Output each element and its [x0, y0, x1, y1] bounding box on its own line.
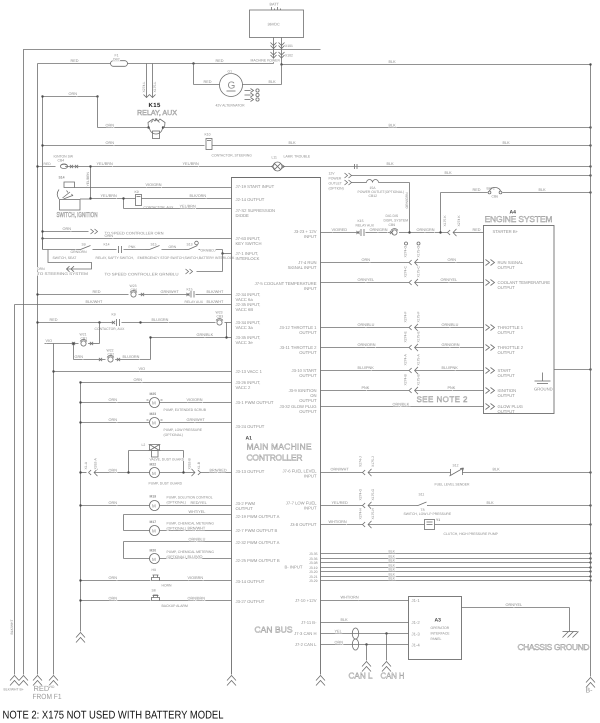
sheet border	[24, 50, 321, 675]
valve L2 dust guard	[129, 450, 150, 452]
wire VIO/GRN row	[75, 187, 232, 189]
svg-text:X274-B: X274-B	[404, 373, 408, 385]
svg-text:X1-A: X1-A	[84, 461, 88, 469]
svg-text:BLK/WHT: BLK/WHT	[86, 300, 104, 304]
svg-text:ORN/YEL: ORN/YEL	[441, 278, 458, 282]
svg-text:X175-L: X175-L	[153, 81, 157, 92]
svg-text:VIO/BRN: VIO/BRN	[188, 576, 204, 580]
svg-text:TO STEERING SYSTEM: TO STEERING SYSTEM	[37, 272, 88, 276]
svg-text:J3-29: J3-29	[309, 579, 318, 583]
wire ORN/GRN to A4	[399, 232, 448, 234]
svg-text:BLK: BLK	[503, 141, 511, 145]
wire to speed controller GRN/BLU	[222, 254, 224, 272]
wire ORN/WHT fuel level row	[321, 472, 363, 474]
wire GRN/BLK to A1 J3-34	[225, 322, 232, 324]
wire ORN CAN L	[321, 644, 409, 646]
svg-text:LAMP, TROUBLE: LAMP, TROUBLE	[284, 155, 311, 159]
svg-text:ORN/BLU: ORN/BLU	[442, 323, 459, 327]
wire BLK lamp row to right rail	[282, 166, 591, 168]
svg-text:BLK: BLK	[341, 618, 349, 622]
svg-text:RELAY AUX: RELAY AUX	[185, 300, 204, 304]
svg-text:J3-20: J3-20	[309, 570, 318, 574]
svg-text:ORN: ORN	[109, 418, 118, 422]
svg-text:X175-A: X175-A	[417, 353, 421, 365]
breaker W21 CB1	[45, 343, 79, 345]
svg-text:OUTPUT: OUTPUT	[299, 373, 317, 378]
svg-text:SWITCH, LOW LP PRESSURE: SWITCH, LOW LP PRESSURE	[404, 512, 452, 516]
svg-text:RED: RED	[44, 162, 52, 166]
wire RED row K9	[38, 322, 115, 324]
svg-text:BLK: BLK	[387, 162, 395, 166]
svg-text:J3-08: J3-08	[309, 561, 318, 565]
svg-text:X274 K: X274 K	[457, 215, 461, 227]
svg-text:K14: K14	[104, 243, 110, 247]
svg-text:M: M	[152, 504, 156, 509]
chassis ground symbol	[563, 631, 578, 633]
svg-text:VACC 2: VACC 2	[236, 385, 251, 390]
svg-text:J7-3 CAN H: J7-3 CAN H	[294, 631, 316, 636]
svg-text:J3-14 OUTPUT: J3-14 OUTPUT	[236, 579, 265, 584]
svg-text:12V: 12V	[329, 172, 336, 176]
svg-text:X262-B: X262-B	[188, 457, 192, 469]
svg-text:OUTPUT: OUTPUT	[299, 350, 317, 355]
wire VIO/RED +12V row	[321, 232, 357, 234]
wire YEL/BRN row lower	[123, 199, 125, 209]
pump M20 chemical metering	[124, 541, 232, 543]
wire VIO rail	[53, 344, 55, 675]
svg-text:SWITCH, SEAT: SWITCH, SEAT	[53, 256, 77, 260]
svg-text:KEY SWITCH: KEY SWITCH	[236, 241, 262, 246]
svg-text:M: M	[152, 471, 156, 476]
wire B- input stack	[321, 553, 591, 555]
wire RED rail from F1	[37, 64, 39, 675]
svg-text:J2-13 VACC 1: J2-13 VACC 1	[236, 369, 263, 374]
svg-text:VIO: VIO	[139, 367, 146, 371]
wire outlet fused feed riser	[379, 182, 410, 184]
svg-text:GRN/BLK: GRN/BLK	[197, 333, 214, 337]
wire BLK to rail	[429, 505, 591, 507]
connector X175-K X274-K	[448, 230, 451, 235]
svg-text:BLU/VIO: BLU/VIO	[188, 555, 203, 559]
svg-text:BLK: BLK	[493, 468, 501, 472]
wire BLK/WHT row	[15, 304, 232, 306]
horn H9	[81, 580, 151, 582]
wire PNK row	[321, 390, 410, 392]
svg-text:DIODE: DIODE	[236, 213, 249, 218]
wire B- right rail	[590, 65, 592, 677]
svg-text:M22: M22	[150, 463, 157, 467]
connector X274-G X175-G	[363, 503, 366, 508]
svg-text:(OPTION): (OPTION)	[329, 187, 344, 191]
wire alternator BLK output	[243, 84, 282, 86]
svg-text:CB4: CB4	[58, 159, 65, 163]
svg-text:FUEL LEVEL SENDER: FUEL LEVEL SENDER	[435, 483, 471, 487]
svg-text:FROM F1: FROM F1	[33, 692, 62, 701]
svg-text:GRN: GRN	[75, 355, 84, 359]
wire ORN/BLU row	[321, 327, 410, 329]
wire X274-L riser	[146, 64, 148, 98]
svg-text:J1-2: J1-2	[412, 620, 421, 625]
svg-text:ORN: ORN	[448, 258, 457, 262]
svg-text:YEL/RED: YEL/RED	[332, 501, 349, 505]
svg-text:CONTROLLER: CONTROLLER	[247, 453, 303, 463]
svg-text:BATT: BATT	[270, 3, 280, 7]
svg-text:YEL/BRN: YEL/BRN	[86, 171, 90, 186]
svg-text:BLK: BLK	[389, 124, 397, 128]
svg-text:DB2: DB2	[113, 57, 120, 61]
wire ORN/GRN	[369, 232, 391, 234]
svg-text:J3-1 PWM OUTPUT: J3-1 PWM OUTPUT	[236, 400, 274, 405]
svg-text:CHASSIS GROUND: CHASSIS GROUND	[518, 642, 590, 652]
pump M17 chemical metering	[124, 514, 232, 516]
svg-text:SEE NOTE 2: SEE NOTE 2	[417, 395, 469, 404]
svg-text:BLK/WHT: BLK/WHT	[10, 619, 14, 634]
svg-text:OUTPUT: OUTPUT	[498, 285, 516, 290]
battery BATT 36VDC	[250, 10, 304, 38]
svg-text:K10: K10	[205, 133, 211, 137]
svg-text:X274-F: X274-F	[404, 311, 408, 322]
svg-text:BLK: BLK	[389, 60, 397, 64]
svg-text:BLK: BLK	[389, 577, 396, 581]
svg-text:PNK: PNK	[129, 245, 137, 249]
svg-text:ORN: ORN	[69, 92, 78, 96]
svg-text:CONTACTOR, STEERING: CONTACTOR, STEERING	[212, 154, 253, 158]
svg-text:MACHINE POWER: MACHINE POWER	[251, 59, 281, 63]
svg-text:ORN/BLU: ORN/BLU	[201, 248, 217, 252]
wire A4 ground to rail	[554, 369, 591, 371]
pump M23	[81, 422, 150, 424]
wire BLK relay to right rail	[163, 127, 591, 129]
svg-text:M: M	[152, 529, 156, 534]
wire GRN/WHT	[139, 294, 187, 296]
wire GRN row	[74, 359, 106, 361]
wire ORN relay coil row	[98, 127, 149, 129]
svg-text:X175-J: X175-J	[371, 456, 375, 467]
wire ORN row to A1 J3-26	[81, 382, 232, 384]
svg-text:S15: S15	[151, 243, 157, 247]
svg-text:S13: S13	[187, 243, 193, 247]
svg-text:RED: RED	[50, 318, 58, 322]
svg-text:INPUT: INPUT	[304, 506, 317, 511]
wire ORN to speed controller	[43, 231, 89, 233]
fuse F1 DB2	[111, 61, 128, 67]
svg-text:INPUT: INPUT	[304, 474, 317, 479]
svg-text:X175-G: X175-G	[371, 488, 375, 500]
svg-text:J1-4: J1-4	[412, 643, 421, 648]
controller A1 main machine	[232, 178, 321, 675]
svg-text:BLK: BLK	[389, 559, 396, 563]
svg-text:K15: K15	[187, 288, 193, 292]
svg-text:ORN/WHT: ORN/WHT	[331, 468, 350, 472]
svg-text:INTERFACE: INTERFACE	[431, 632, 451, 636]
svg-text:H9: H9	[152, 568, 156, 572]
svg-text:B-: B-	[586, 688, 594, 695]
connector X274-C / X175-C	[409, 280, 412, 285]
svg-text:PUMP, EXTENDED SCRUB: PUMP, EXTENDED SCRUB	[164, 408, 207, 412]
svg-text:ORN: ORN	[109, 469, 118, 473]
svg-text:CAN L: CAN L	[349, 671, 373, 681]
wire ORN/YEL to chassis ground	[462, 607, 570, 609]
svg-text:S9: S9	[82, 243, 86, 247]
wire BLK/WHT to A1 J2-34	[199, 294, 232, 296]
svg-text:ORN: ORN	[109, 576, 118, 580]
svg-text:J2-25 PWM OUTPUT B: J2-25 PWM OUTPUT B	[236, 558, 280, 563]
svg-text:OUTPUT: OUTPUT	[299, 398, 317, 403]
svg-text:J3-35: J3-35	[309, 552, 318, 556]
wire GRN/BLK row W22 riser	[151, 337, 227, 339]
svg-text:PANEL: PANEL	[431, 637, 442, 641]
svg-text:INPUT: INPUT	[304, 286, 317, 291]
svg-text:VACC 3e: VACC 3e	[236, 340, 254, 345]
panel A3 operator interface	[409, 597, 462, 660]
svg-text:K9: K9	[112, 313, 116, 317]
svg-text:ORN: ORN	[109, 501, 118, 505]
svg-text:ORN/GRN: ORN/GRN	[370, 228, 388, 232]
svg-text:J3-27 OUTPUT: J3-27 OUTPUT	[236, 599, 265, 604]
wire battery negative lead	[281, 38, 283, 65]
svg-text:L11: L11	[272, 156, 278, 160]
svg-text:GRN/ORN: GRN/ORN	[442, 343, 460, 347]
svg-text:M19: M19	[150, 495, 157, 499]
twisted pair symbol	[352, 628, 358, 639]
wire YEL/BRN ignition row	[65, 166, 272, 168]
svg-text:BRN/WHT: BRN/WHT	[188, 527, 206, 531]
svg-text:X274-G: X274-G	[359, 488, 363, 500]
svg-text:J7-11 B-: J7-11 B-	[301, 620, 317, 625]
svg-text:X274-O: X274-O	[404, 245, 408, 257]
svg-text:BACKUP ALARM: BACKUP ALARM	[162, 604, 188, 608]
wire BLK/ORN row	[91, 198, 136, 200]
svg-text:M: M	[152, 401, 156, 406]
svg-text:PNK: PNK	[448, 386, 456, 390]
svg-text:X175-F: X175-F	[417, 311, 421, 322]
svg-text:BRN/RED: BRN/RED	[210, 469, 227, 473]
svg-text:ORN/YEL: ORN/YEL	[358, 278, 375, 282]
svg-text:VIO/GRN: VIO/GRN	[146, 183, 162, 187]
wire BLK/WHT B+ left rail	[14, 305, 16, 675]
wire BLU/ORN riser	[115, 359, 150, 361]
wire alternator RED feed	[193, 64, 195, 85]
svg-text:OUTPUT: OUTPUT	[498, 330, 516, 335]
wire ORN row to contactor steering	[43, 145, 205, 147]
wire YEL CAN H	[321, 633, 409, 635]
svg-text:BLU/ORN: BLU/ORN	[123, 355, 140, 359]
alternator G1	[220, 74, 243, 97]
connector X274-A / X175-A	[409, 368, 412, 373]
svg-text:X175 K: X175 K	[443, 215, 447, 227]
clutch Y1 high pressure pump	[425, 520, 435, 530]
svg-text:ORN: ORN	[37, 267, 45, 271]
wire clutch to rail	[435, 524, 591, 526]
svg-text:J2-32 PWM OUTPUT A: J2-32 PWM OUTPUT A	[236, 540, 280, 545]
svg-text:ORN: ORN	[362, 258, 371, 262]
ground symbol A4	[542, 373, 544, 382]
connector pins below	[405, 242, 408, 245]
svg-text:42V ALTERNATOR: 42V ALTERNATOR	[216, 104, 246, 108]
svg-text:BLU/PNK: BLU/PNK	[442, 366, 459, 370]
wire RED row CB6	[38, 294, 129, 296]
wire GRN/BLK to A1 J3-35	[226, 323, 228, 338]
svg-text:L2: L2	[142, 443, 146, 447]
svg-text:X102: X102	[285, 54, 293, 58]
svg-text:GRN/ORN: GRN/ORN	[71, 250, 88, 254]
wire RED battery feed row	[38, 63, 111, 65]
svg-text:S14: S14	[59, 176, 65, 180]
svg-text:POWER OUTLET(OPTIONAL): POWER OUTLET(OPTIONAL)	[358, 190, 405, 194]
svg-text:PUMP, CHEMICAL METERING: PUMP, CHEMICAL METERING	[167, 550, 215, 554]
wire WHT/ORN clutch row	[321, 524, 363, 526]
svg-text:OUTPUT: OUTPUT	[498, 350, 516, 355]
svg-text:J7-10 +12V: J7-10 +12V	[295, 598, 317, 603]
svg-text:CB12: CB12	[369, 194, 378, 198]
svg-text:(OPTIONAL): (OPTIONAL)	[164, 433, 183, 437]
svg-text:WHT/ORN: WHT/ORN	[341, 596, 359, 600]
connector X102	[271, 52, 277, 55]
svg-text:GROUND: GROUND	[534, 387, 553, 392]
connector X274-F / X175-F	[409, 325, 412, 330]
svg-text:RELAY AUX: RELAY AUX	[356, 224, 375, 228]
svg-text:YEL/BRN: YEL/BRN	[183, 162, 200, 166]
svg-text:S12: S12	[453, 464, 459, 468]
svg-text:CB3: CB3	[217, 315, 224, 319]
svg-text:CB6: CB6	[492, 195, 499, 199]
svg-text:M17: M17	[150, 520, 157, 524]
svg-text:MAIN MACHINE: MAIN MACHINE	[247, 442, 312, 452]
svg-text:BLK: BLK	[269, 80, 277, 84]
wire interlock chain	[43, 249, 79, 251]
svg-text:CONTACTOR, AUX: CONTACTOR, AUX	[95, 327, 126, 331]
wire battery positive lead	[273, 38, 275, 64]
svg-text:J2-7 PWM OUTPUT B: J2-7 PWM OUTPUT B	[236, 528, 278, 533]
svg-text:X175-O: X175-O	[417, 245, 421, 257]
svg-text:GRN/WHT: GRN/WHT	[161, 290, 180, 294]
svg-text:X274-E: X274-E	[404, 330, 408, 342]
wire ORN pump feed rail	[80, 383, 82, 632]
wire CAN H drop	[385, 632, 387, 634]
wire WHT/ORN +12V to A3	[321, 600, 409, 602]
svg-text:J1-3: J1-3	[412, 632, 421, 637]
svg-text:X175-E: X175-E	[417, 330, 421, 342]
svg-text:ORN: ORN	[109, 398, 118, 402]
wire BLU/PNK row	[321, 370, 410, 372]
svg-text:S11: S11	[419, 493, 425, 497]
svg-text:OUTPUT: OUTPUT	[498, 373, 516, 378]
wire RED BAT2 row	[441, 192, 488, 194]
wire BLK contactor to right rail	[212, 145, 591, 147]
svg-text:BLK: BLK	[389, 550, 396, 554]
wire VIO row to A1 J2-13	[54, 371, 232, 373]
svg-text:NOTE 2: X175 NOT USED WITH BAT: NOTE 2: X175 NOT USED WITH BATTERY MODEL	[3, 710, 224, 722]
svg-text:SWITCH, IGNITION: SWITCH, IGNITION	[57, 212, 98, 219]
wire YEL/RED low fuel row	[321, 505, 363, 507]
svg-text:RELAY, SAFTY SWITCH,: RELAY, SAFTY SWITCH,	[96, 256, 134, 260]
svg-text:M: M	[152, 421, 156, 426]
svg-text:VIO: VIO	[46, 339, 53, 343]
svg-text:OUTPUT: OUTPUT	[498, 409, 516, 414]
svg-text:X1-B: X1-B	[197, 461, 201, 469]
pump M19 solution control	[81, 505, 150, 507]
svg-text:G: G	[228, 81, 236, 92]
svg-text:X274-A: X274-A	[404, 353, 408, 365]
svg-text:BLK: BLK	[289, 141, 297, 145]
svg-text:PUMP, DUST GUARD: PUMP, DUST GUARD	[149, 482, 183, 486]
svg-text:SIGNAL INPUT: SIGNAL INPUT	[288, 265, 317, 270]
svg-text:A3: A3	[435, 618, 442, 624]
svg-text:VACC 6B: VACC 6B	[236, 307, 254, 312]
svg-text:(OPTIONAL): (OPTIONAL)	[167, 527, 186, 531]
backup alarm S8	[81, 600, 151, 602]
svg-text:J7-19 START INPUT: J7-19 START INPUT	[236, 184, 275, 189]
svg-text:OUTPUT: OUTPUT	[498, 393, 516, 398]
fuse CB12 power outlet	[352, 182, 367, 184]
svg-text:PUMP, SOLUTION CONTROL: PUMP, SOLUTION CONTROL	[167, 496, 213, 500]
svg-text:RED: RED	[71, 59, 79, 63]
svg-text:(OPTIONAL): (OPTIONAL)	[167, 555, 186, 559]
svg-text:ORN/BLU: ORN/BLU	[189, 538, 206, 542]
svg-text:ENGINE SYSTEM: ENGINE SYSTEM	[485, 214, 553, 224]
svg-text:ORN/GRN: ORN/GRN	[405, 192, 409, 209]
wire X175-L riser	[152, 64, 154, 98]
svg-text:YEL/BRN: YEL/BRN	[97, 162, 114, 166]
svg-text:J2-19 PWM OUTPUT A: J2-19 PWM OUTPUT A	[236, 514, 280, 519]
svg-text:YEL: YEL	[335, 630, 342, 634]
connector X274-B / X175-B	[409, 388, 412, 393]
svg-text:J2-14 OUTPUT: J2-14 OUTPUT	[236, 197, 265, 202]
svg-text:ORN/YEL: ORN/YEL	[506, 603, 523, 607]
svg-text:STARTER B+: STARTER B+	[493, 229, 519, 234]
svg-text:TO SPEED CONTROLLER ORN: TO SPEED CONTROLLER ORN	[105, 232, 164, 236]
svg-text:CAN H: CAN H	[381, 671, 405, 681]
svg-text:M23: M23	[150, 412, 157, 416]
svg-text:X274-J: X274-J	[359, 456, 363, 467]
svg-text:ORN: ORN	[63, 227, 72, 231]
wire W21 riser to K9 row	[88, 343, 99, 345]
svg-text:BLK/WHT: BLK/WHT	[207, 300, 225, 304]
svg-text:J3-8 OUTPUT: J3-8 OUTPUT	[290, 522, 317, 527]
svg-text:BLK/WHT B+: BLK/WHT B+	[4, 688, 24, 692]
svg-text:GRN/WHT: GRN/WHT	[187, 418, 206, 422]
svg-text:K9: K9	[135, 190, 139, 194]
svg-text:X274-H: X274-H	[359, 507, 363, 519]
svg-text:BLK: BLK	[389, 568, 396, 572]
engine system A4 box	[484, 226, 555, 414]
svg-text:DIG DIS: DIG DIS	[386, 214, 399, 218]
connector X274-O / X175-O	[409, 260, 412, 265]
svg-text:WHT/ORN: WHT/ORN	[329, 520, 347, 524]
wire interlock to A1 J7-1	[222, 250, 224, 254]
svg-text:ORN/BLK: ORN/BLK	[393, 403, 410, 407]
svg-text:PUMP, CHEMICAL METERING: PUMP, CHEMICAL METERING	[167, 522, 215, 526]
svg-text:OUTPUT: OUTPUT	[498, 265, 516, 270]
svg-text:ORN: ORN	[335, 641, 344, 645]
svg-text:ORN: ORN	[134, 378, 143, 382]
svg-text:M: M	[152, 557, 156, 562]
svg-text:ORN: ORN	[169, 245, 177, 249]
svg-text:BLK/WHT: BLK/WHT	[207, 290, 225, 294]
svg-text:K15: K15	[358, 219, 364, 223]
alternator aux terminals	[245, 90, 251, 92]
svg-text:ORN/GRN: ORN/GRN	[417, 228, 435, 232]
wire BLK outlet row to right rail	[352, 175, 591, 177]
wire ORN row	[321, 262, 410, 264]
svg-text:X101: X101	[285, 44, 293, 48]
svg-text:BLK/ORN: BLK/ORN	[190, 194, 207, 198]
svg-text:OUTPUT: OUTPUT	[299, 330, 317, 335]
svg-text:BLK: BLK	[539, 188, 547, 192]
wire ORN riser to relay	[97, 97, 99, 128]
svg-text:CAN BUS: CAN BUS	[255, 625, 293, 635]
wire YEL/BRN riser	[90, 167, 92, 199]
